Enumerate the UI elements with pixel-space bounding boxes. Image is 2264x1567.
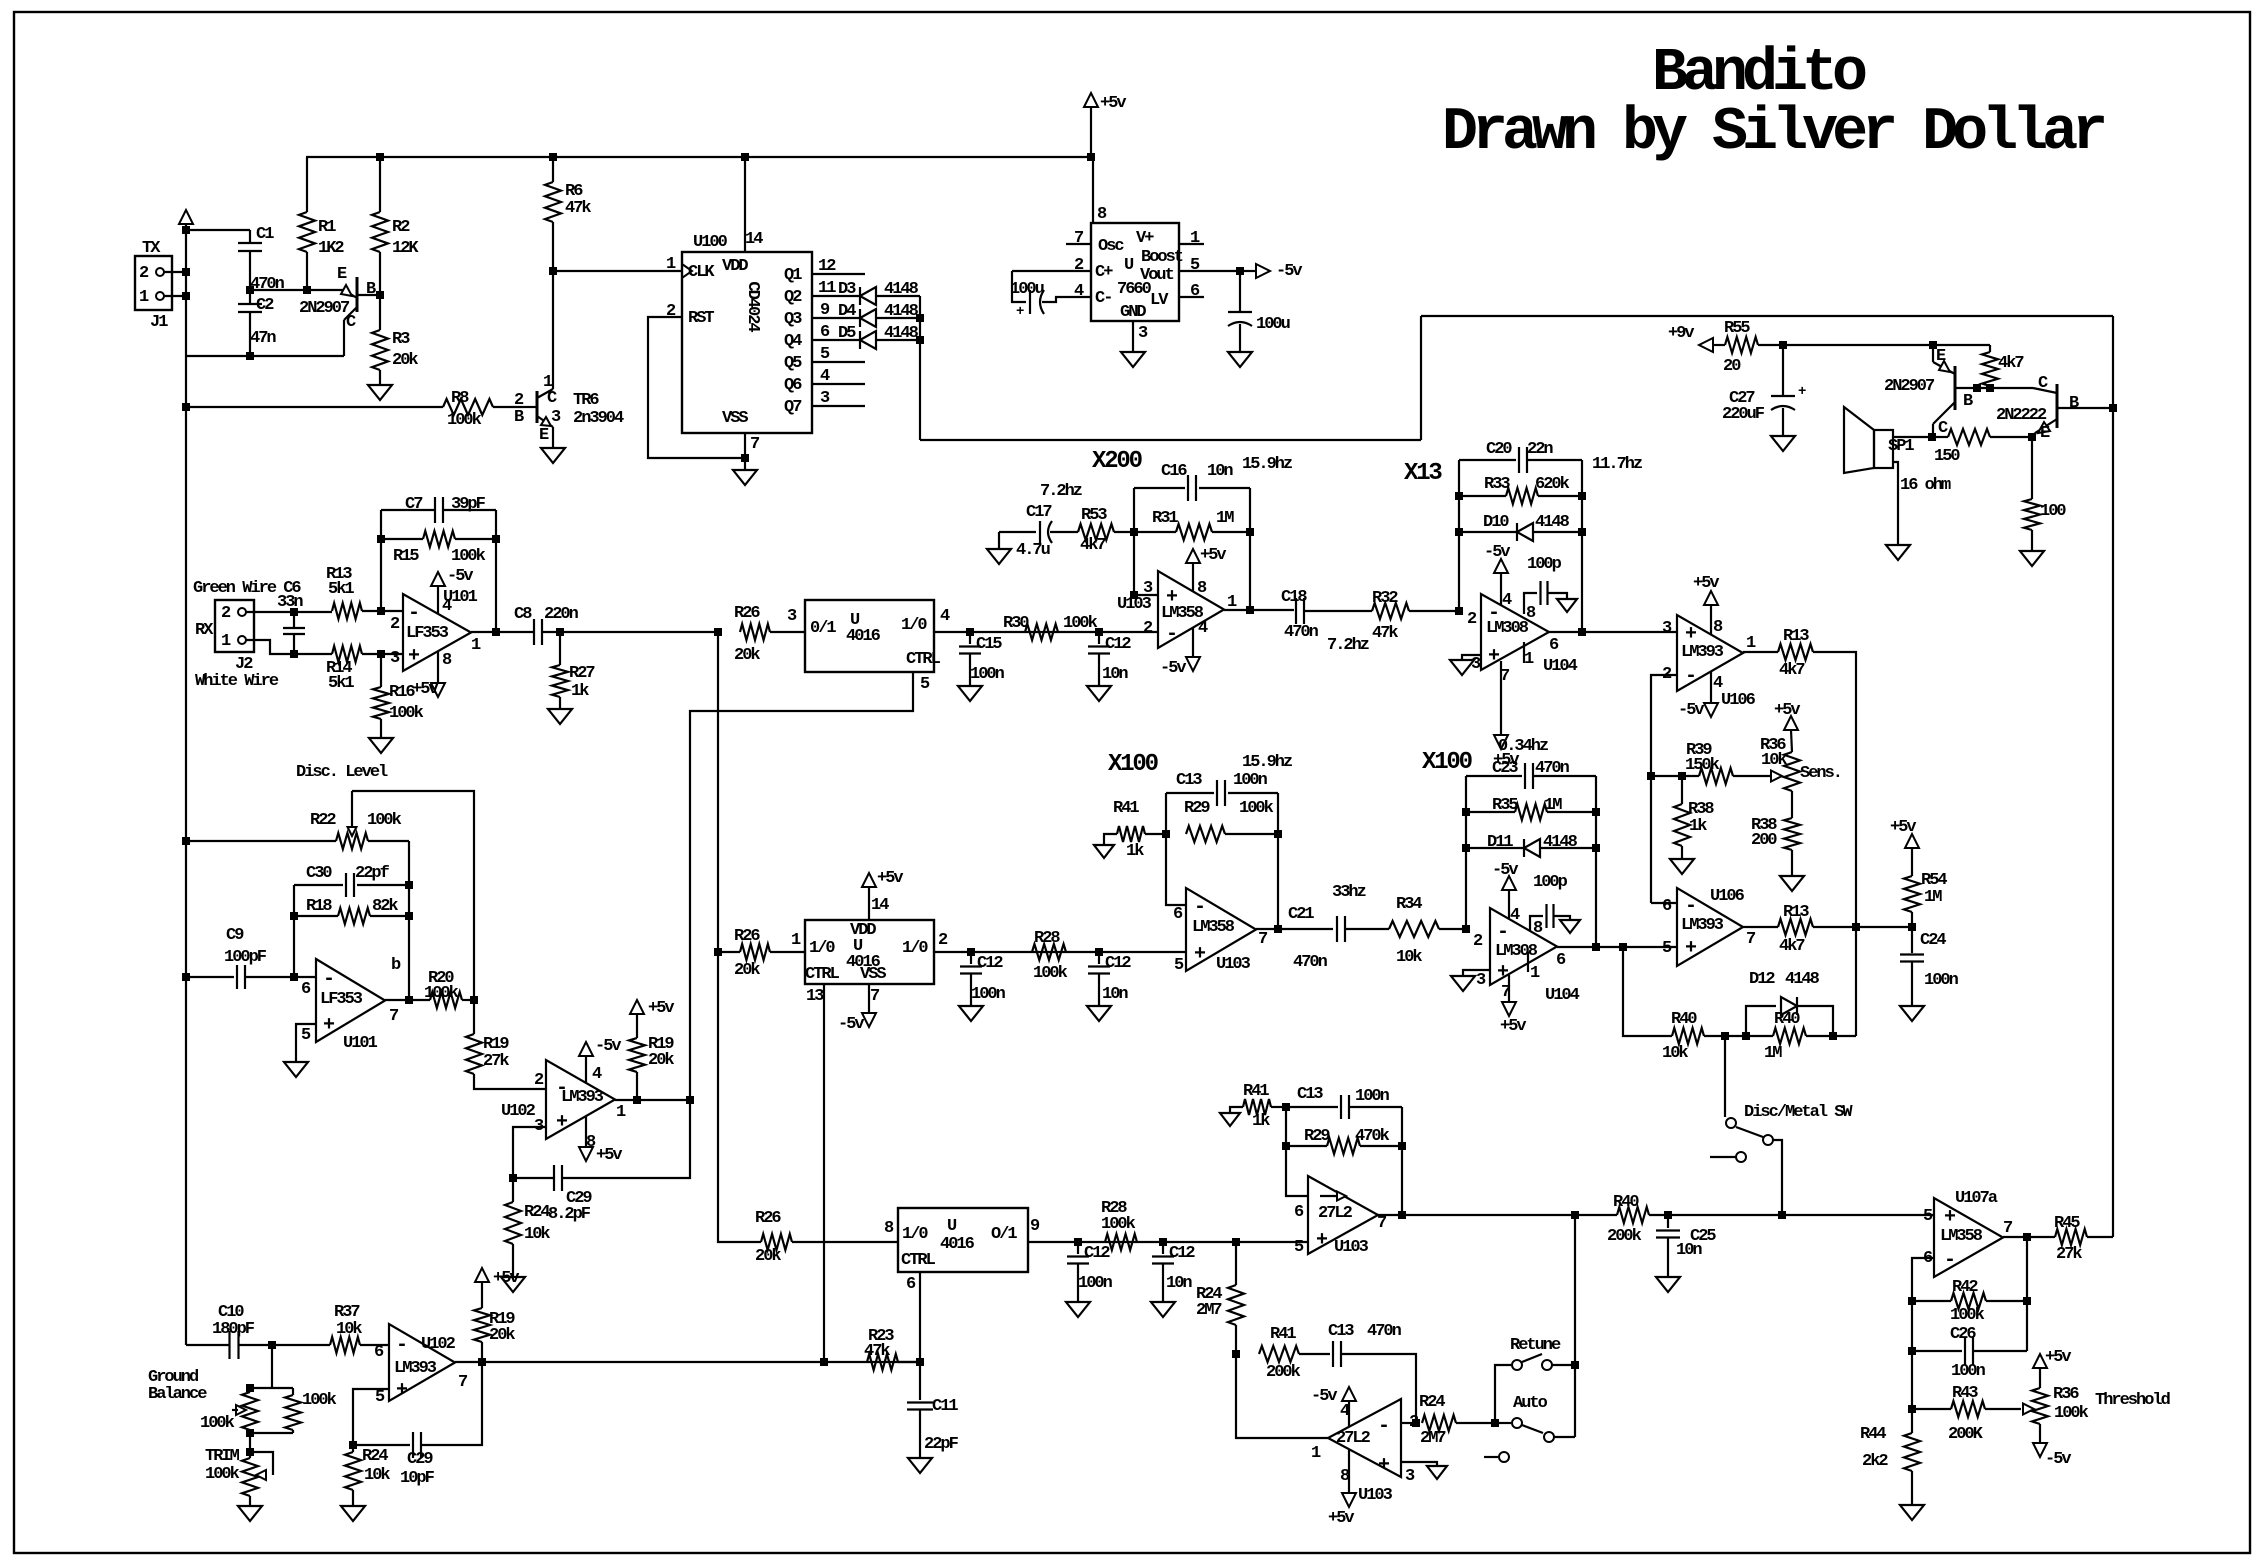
resistor R19 20k pullup (U102b): [474, 1268, 519, 1362]
svg-text:Sens.: Sens.: [1800, 764, 1841, 783]
svg-text:-5v: -5v: [447, 567, 473, 586]
op-amp U106a LM393: [1662, 615, 1756, 710]
switch Auto: [1484, 1394, 1575, 1462]
power +5v (Sens): [1774, 701, 1800, 752]
wire B net vertical: [2112, 316, 2114, 1237]
svg-text:-5v: -5v: [1311, 1387, 1337, 1406]
svg-text:R24: R24: [1419, 1393, 1445, 1412]
svg-text:R1: R1: [318, 218, 336, 237]
pin 7660 osc: [1066, 243, 1091, 245]
svg-text:100n: 100n: [1355, 1087, 1390, 1106]
svg-text:+5v: +5v: [1774, 701, 1800, 720]
ground (R41 27L2): [1220, 1113, 1240, 1126]
wire U102a out: [615, 1096, 694, 1104]
svg-text:U102: U102: [421, 1335, 456, 1354]
potentiometer GB 100k: [200, 1388, 258, 1433]
wire diode summing net: [916, 296, 2113, 440]
resistor R13 4k7 (lower): [1743, 903, 1916, 956]
resistor R40 1M: [1742, 1010, 1856, 1063]
svg-text:470n: 470n: [1284, 623, 1319, 642]
svg-text:C11: C11: [932, 1397, 958, 1416]
transistor 2N2222: [1996, 374, 2117, 443]
capacitor C17 4.7u: [999, 503, 1078, 560]
svg-text:C7: C7: [405, 495, 423, 514]
svg-text:20k: 20k: [392, 351, 418, 370]
ground (C12b row3): [1151, 1302, 1175, 1317]
svg-text:470n: 470n: [1535, 759, 1570, 778]
svg-text:4148: 4148: [1543, 833, 1578, 852]
capacitor C29 8.2pF: [509, 1165, 592, 1224]
op-amp 27L2 #1 U103: [1294, 1176, 1387, 1257]
svg-text:X200: X200: [1092, 448, 1143, 475]
svg-text:R26: R26: [734, 927, 760, 946]
ground (R24b): [341, 1506, 365, 1521]
capacitor C13 100n (row2): [1166, 771, 1278, 806]
transistor 2N2907 (oscillator): [299, 265, 380, 356]
svg-text:200k: 200k: [1266, 1363, 1301, 1382]
resistor R53 4k7: [1078, 506, 1134, 555]
capacitor C6 33n: [246, 593, 332, 658]
resistor R30 100k: [1003, 614, 1098, 640]
resistor R31 1M: [1134, 509, 1250, 540]
resistor R41 1k (27L2): [1230, 1082, 1290, 1131]
potentiometer R36 100k Threshold: [2023, 1348, 2171, 1469]
svg-text:Q1: Q1: [784, 266, 802, 285]
ground (R38 200): [1780, 876, 1804, 891]
svg-text:Q5: Q5: [784, 354, 802, 373]
svg-text:200: 200: [1751, 831, 1777, 850]
svg-text:4148: 4148: [884, 324, 919, 343]
wire 27L2#1 out: [1378, 1211, 1617, 1219]
resistor R44 2k2: [1860, 1425, 1920, 1505]
svg-text:Disc. Level: Disc. Level: [296, 763, 388, 782]
capacitor C12 10n (row3): [1152, 1242, 1195, 1302]
svg-text:R43: R43: [1952, 1384, 1978, 1403]
svg-text:-: -: [323, 968, 333, 991]
capacitor 100p (U104a): [1524, 555, 1577, 614]
svg-text:U103: U103: [1358, 1486, 1393, 1505]
svg-text:R18: R18: [306, 897, 332, 916]
svg-text:RX: RX: [195, 621, 214, 640]
svg-text:R35: R35: [1492, 796, 1518, 815]
svg-text:LM308: LM308: [1495, 942, 1538, 961]
resistor R2: [372, 157, 419, 299]
svg-text:10n: 10n: [1207, 462, 1233, 481]
svg-text:27L2: 27L2: [1336, 1429, 1371, 1448]
capacitor C11 22pF: [907, 1362, 959, 1458]
svg-text:-: -: [1194, 896, 1204, 919]
diode D3 4148: [838, 280, 920, 305]
diode D10 4148: [1459, 513, 1582, 541]
resistor R24 10k: [505, 1178, 550, 1277]
svg-text:47n: 47n: [250, 329, 276, 348]
svg-text:U106: U106: [1710, 887, 1745, 906]
svg-text:R32: R32: [1372, 589, 1398, 608]
svg-text:Boost: Boost: [1141, 248, 1183, 267]
svg-text:20k: 20k: [648, 1051, 674, 1070]
wire X100f right rail: [1274, 793, 1282, 933]
wire VSS pin7: [744, 433, 746, 470]
svg-text:100n: 100n: [1924, 971, 1959, 990]
svg-text:+5v: +5v: [2045, 1348, 2071, 1367]
svg-text:U106: U106: [1721, 691, 1756, 710]
resistor R41 1k (row2): [1104, 799, 1166, 861]
svg-text:20: 20: [1723, 357, 1741, 376]
svg-text:-: -: [396, 1334, 406, 1357]
svg-text:5k1: 5k1: [328, 674, 354, 693]
potentiometer TRIM 100k: [205, 1433, 273, 1506]
svg-text:R40: R40: [1613, 1193, 1639, 1212]
resistor R43 200K: [1908, 1384, 2021, 1444]
resistor 100: [2024, 437, 2066, 551]
wire switch rail: [1571, 1215, 1579, 1437]
wire disc level rail: [352, 791, 478, 1004]
svg-text:R42: R42: [1952, 1278, 1978, 1297]
svg-text:LM393: LM393: [1681, 643, 1724, 662]
svg-text:620k: 620k: [1535, 475, 1570, 494]
svg-text:TRIM: TRIM: [205, 1447, 240, 1466]
svg-text:R26: R26: [755, 1209, 781, 1228]
svg-text:10k: 10k: [524, 1225, 550, 1244]
resistor R32 47k: [1372, 589, 1463, 643]
svg-text:200K: 200K: [1948, 1425, 1984, 1444]
capacitor C12 10n (row1): [1088, 632, 1131, 686]
wire U106a pin2: [1647, 675, 1677, 903]
svg-text:+5v: +5v: [1500, 1017, 1526, 1036]
svg-text:33n: 33n: [277, 593, 303, 612]
resistor R26 20k (row1): [734, 604, 805, 665]
svg-text:C30: C30: [306, 864, 332, 883]
IC 4016 switch #1: [787, 600, 950, 694]
svg-text:16 ohm: 16 ohm: [1900, 476, 1951, 495]
resistor 150: [1932, 429, 2036, 466]
wire 7660 GND pin3: [1132, 321, 1134, 352]
svg-text:39pF: 39pF: [451, 495, 486, 514]
label 0.34hz: [1498, 737, 1548, 756]
resistor GB 100k: [285, 1388, 337, 1433]
svg-text:8.2pF: 8.2pF: [548, 1205, 591, 1224]
wire U102a pin3: [513, 1127, 546, 1178]
wire 27L2#2 pin2: [1401, 1422, 1416, 1424]
svg-text:R29: R29: [1184, 799, 1210, 818]
svg-text:+5v: +5v: [596, 1146, 622, 1165]
ground (R3): [368, 385, 392, 400]
resistor 4k7 (driver): [1982, 345, 2024, 392]
svg-text:12K: 12K: [392, 239, 419, 258]
svg-text:R24: R24: [524, 1203, 550, 1222]
connector J2 RX: [195, 600, 279, 691]
resistor R37 10k: [330, 1303, 389, 1353]
power -5v (27L2#2): [1311, 1387, 1356, 1427]
svg-text:-: -: [1378, 1415, 1388, 1438]
diode D5 4148: [838, 324, 920, 349]
capacitor C15 100n: [959, 632, 1005, 686]
svg-text:White Wire: White Wire: [195, 672, 279, 691]
svg-text:-: -: [1944, 1249, 1954, 1272]
svg-text:100u: 100u: [1010, 280, 1044, 299]
svg-text:22n: 22n: [1527, 440, 1553, 459]
wire X100f left rail: [1162, 793, 1186, 905]
svg-text:4.7u: 4.7u: [1016, 541, 1050, 560]
capacitor C12 10n (row2): [1088, 952, 1131, 1006]
svg-text:Bandito: Bandito: [1652, 40, 1866, 108]
connector J1 TX: [135, 239, 186, 332]
svg-text:Q6: Q6: [784, 376, 802, 395]
svg-text:10n: 10n: [1102, 985, 1128, 1004]
resistor R34 10k: [1389, 895, 1470, 967]
power -5v (U101a): [431, 567, 473, 614]
wire 4016#3 out: [1028, 1238, 1308, 1246]
ground (100): [2020, 551, 2044, 566]
wire J2 pin1: [246, 640, 332, 654]
wire E row: [250, 286, 344, 294]
label X100 (LM308): [1422, 749, 1473, 776]
svg-text:R16: R16: [389, 683, 415, 702]
power -5v (U102a): [579, 1037, 621, 1083]
svg-text:+5v: +5v: [493, 1269, 519, 1288]
svg-text:Retune: Retune: [1510, 1336, 1561, 1355]
svg-text:2k2: 2k2: [1862, 1452, 1888, 1471]
svg-text:C21: C21: [1288, 905, 1314, 924]
wire U101b pin5 gnd: [296, 1024, 316, 1062]
label Disc. Level: [296, 763, 388, 782]
title Bandito: [1652, 40, 1866, 108]
svg-text:Drawn by Silver Dollar: Drawn by Silver Dollar: [1442, 99, 2104, 167]
power +5v (U101a): [412, 651, 445, 699]
svg-text:-5v: -5v: [1276, 262, 1302, 281]
svg-text:10k: 10k: [1396, 948, 1422, 967]
svg-text:4016: 4016: [940, 1235, 975, 1254]
svg-text:-5v: -5v: [1492, 861, 1518, 880]
svg-text:1k: 1k: [1252, 1112, 1270, 1131]
wire R26 bus: [714, 632, 761, 1242]
svg-text:1/0: 1/0: [901, 616, 927, 635]
svg-text:10pF: 10pF: [400, 1469, 435, 1488]
pin Q1 12: [812, 257, 865, 276]
capacitor C27 220uF: [1722, 345, 1806, 436]
svg-text:13: 13: [806, 987, 824, 1006]
svg-text:4k7: 4k7: [1779, 937, 1805, 956]
pin1 stub (U104a): [1523, 642, 1525, 663]
capacitor C2: [238, 290, 276, 360]
svg-text:5k1: 5k1: [328, 580, 354, 599]
wire CLK net: [553, 270, 682, 272]
capacitor C12 100n (row2): [960, 952, 1006, 1006]
power -5v (U103a): [1160, 628, 1200, 678]
svg-text:-5v: -5v: [2045, 1450, 2071, 1469]
wire X100 right rail: [1592, 776, 1600, 951]
power +5v (U104a): [1493, 661, 1519, 770]
svg-text:100k: 100k: [1950, 1306, 1985, 1325]
wire U103a out: [1224, 606, 1294, 614]
title Drawn by Silver Dollar: [1442, 99, 2104, 167]
svg-text:+5v: +5v: [1328, 1509, 1354, 1528]
svg-text:15.9hz: 15.9hz: [1242, 753, 1292, 772]
IC 4016 switch #3: [884, 1208, 1040, 1294]
capacitor C24 100n: [1900, 931, 1959, 1006]
wire U102b pin5 loop: [349, 1389, 389, 1449]
power arrow TX drive: [179, 210, 193, 224]
pin Q2 11: [812, 279, 860, 298]
power -5v (U104a): [1484, 543, 1512, 610]
svg-text:1/0: 1/0: [902, 939, 928, 958]
wire 4016#2 ctrl13: [823, 984, 825, 1362]
svg-text:27L2: 27L2: [1318, 1204, 1353, 1223]
svg-text:C12: C12: [977, 954, 1003, 973]
capacitor C8 220n: [514, 605, 722, 645]
svg-text:R36: R36: [2053, 1385, 2079, 1404]
svg-text:Auto: Auto: [1513, 1394, 1548, 1413]
svg-text:+9v: +9v: [1668, 324, 1694, 343]
svg-text:100k: 100k: [1101, 1215, 1136, 1234]
svg-text:C24: C24: [1920, 931, 1946, 950]
wire 4016#2 out: [934, 948, 1186, 956]
svg-text:LF353: LF353: [406, 624, 449, 643]
wire C30 right rail: [405, 841, 413, 1004]
ground (100u): [1228, 352, 1252, 367]
label 11.7hz: [1592, 455, 1642, 474]
op-amp 27L2 #2 U103 (mirrored): [1311, 1399, 1419, 1505]
svg-text:Q2: Q2: [784, 288, 802, 307]
svg-text:100k: 100k: [200, 1414, 235, 1433]
ground (R44): [1900, 1505, 1924, 1520]
svg-text:C20: C20: [1486, 440, 1512, 459]
resistor R40 200k: [1607, 1193, 1672, 1246]
wire U103b out: [1256, 925, 1333, 933]
svg-text:100n: 100n: [1233, 771, 1268, 790]
svg-text:0.34hz: 0.34hz: [1498, 737, 1548, 756]
wire U104b out down: [1623, 947, 1672, 1036]
svg-text:100k: 100k: [389, 704, 424, 723]
wire left vertical net: [182, 224, 190, 1345]
resistor R29 100k (row2): [1184, 799, 1278, 842]
resistor R38 1k: [1674, 776, 1714, 859]
svg-text:R53: R53: [1081, 506, 1107, 525]
svg-text:Disc/Metal SW: Disc/Metal SW: [1744, 1103, 1853, 1122]
wire X200 left rail: [1130, 488, 1158, 599]
ground (C11): [908, 1458, 932, 1473]
resistor R26 20k (row2): [718, 927, 805, 980]
svg-text:20k: 20k: [755, 1247, 781, 1266]
resistor R6: [545, 157, 591, 275]
svg-text:-: -: [1166, 623, 1176, 646]
svg-text:100k: 100k: [424, 984, 459, 1003]
wire Vout -5v: [1179, 267, 1256, 275]
power +5v (U104b): [1500, 975, 1526, 1036]
svg-text:U107a: U107a: [1955, 1189, 1998, 1208]
svg-text:100k: 100k: [447, 411, 482, 430]
svg-text:+5v: +5v: [1200, 546, 1226, 565]
svg-text:VSS: VSS: [722, 409, 748, 428]
svg-text:LM393: LM393: [561, 1088, 604, 1107]
svg-text:D4: D4: [838, 302, 856, 321]
svg-text:1M: 1M: [1216, 509, 1234, 528]
svg-text:R22: R22: [310, 811, 336, 830]
svg-text:VSS: VSS: [860, 965, 886, 984]
svg-text:1M: 1M: [1544, 796, 1562, 815]
resistor R41 200k: [1259, 1325, 1330, 1382]
svg-text:C12: C12: [1105, 635, 1131, 654]
IC 4016 switch #2: [791, 896, 948, 1006]
IC U 7660: [1074, 205, 1200, 343]
label Green Wire C6: [193, 579, 301, 598]
resistor R14 5k1: [326, 646, 403, 693]
svg-text:D5: D5: [838, 324, 856, 343]
svg-text:R26: R26: [734, 604, 760, 623]
ground (U104b pin3): [1451, 970, 1490, 991]
svg-text:2M7: 2M7: [1196, 1301, 1222, 1320]
capacitor C7 39pF: [381, 495, 496, 523]
svg-text:100p: 100p: [1527, 555, 1562, 574]
svg-text:470n: 470n: [250, 275, 285, 294]
ground (C12 row2): [959, 1006, 983, 1021]
svg-text:47k: 47k: [1372, 624, 1398, 643]
svg-text:14: 14: [745, 230, 763, 249]
svg-text:R40: R40: [1774, 1010, 1800, 1029]
svg-text:CD4024: CD4024: [743, 281, 762, 332]
capacitor C20 22n: [1459, 440, 1582, 473]
svg-text:100k: 100k: [2054, 1404, 2089, 1423]
op-amp U102a LM393: [501, 1060, 626, 1152]
power -5v arrow: [1256, 262, 1302, 281]
svg-text:C17: C17: [1026, 503, 1052, 522]
svg-text:+5v: +5v: [1693, 574, 1719, 593]
ground (C24): [1900, 1006, 1924, 1021]
svg-text:GND: GND: [1120, 303, 1146, 322]
svg-text:J1: J1: [150, 313, 168, 332]
resistor R38 200: [1751, 816, 1800, 876]
resistor R28 100k (row3): [1101, 1199, 1137, 1250]
wire top +5v bus: [306, 153, 1095, 161]
svg-text:470k: 470k: [1355, 1127, 1390, 1146]
svg-text:CTRL: CTRL: [906, 650, 941, 669]
capacitor 100p (U104b): [1530, 873, 1580, 933]
power +5v (4016#2): [862, 869, 903, 920]
svg-text:LM393: LM393: [1681, 916, 1724, 935]
svg-text:R13: R13: [1783, 903, 1809, 922]
svg-text:LF353: LF353: [320, 990, 363, 1009]
svg-text:12: 12: [818, 257, 836, 276]
resistor R19 20k pullup: [629, 999, 674, 1104]
resistor R33 620k: [1459, 475, 1582, 504]
svg-text:10n: 10n: [1102, 665, 1128, 684]
pin Q5 5: [812, 345, 865, 364]
svg-text:-: -: [1685, 895, 1695, 918]
svg-text:X100: X100: [1108, 751, 1159, 778]
pin Q4 6: [812, 323, 860, 342]
svg-text:R41: R41: [1113, 799, 1139, 818]
svg-text:+5v: +5v: [412, 680, 438, 699]
svg-text:+5v: +5v: [877, 869, 903, 888]
svg-text:-5v: -5v: [1678, 701, 1704, 720]
label X100 row2: [1108, 751, 1159, 778]
power +5v arrow (7660 pin8): [1084, 93, 1126, 157]
capacitor 100u (pump): [1010, 271, 1091, 320]
op-amp U103b LM358: [1173, 888, 1268, 975]
svg-text:R13: R13: [1783, 627, 1809, 646]
resistor R18 82k: [294, 897, 409, 924]
ground (R24): [501, 1277, 525, 1292]
svg-text:11.7hz: 11.7hz: [1592, 455, 1642, 474]
capacitor 100u (output): [1228, 271, 1290, 352]
svg-text:20k: 20k: [734, 646, 760, 665]
capacitor C26 100n: [1908, 1325, 2027, 1381]
svg-text:22pf: 22pf: [355, 864, 390, 883]
svg-text:4148: 4148: [884, 280, 919, 299]
label X13: [1404, 460, 1442, 487]
resistor R16 100k: [373, 654, 424, 738]
svg-text:LM358: LM358: [1192, 918, 1235, 937]
